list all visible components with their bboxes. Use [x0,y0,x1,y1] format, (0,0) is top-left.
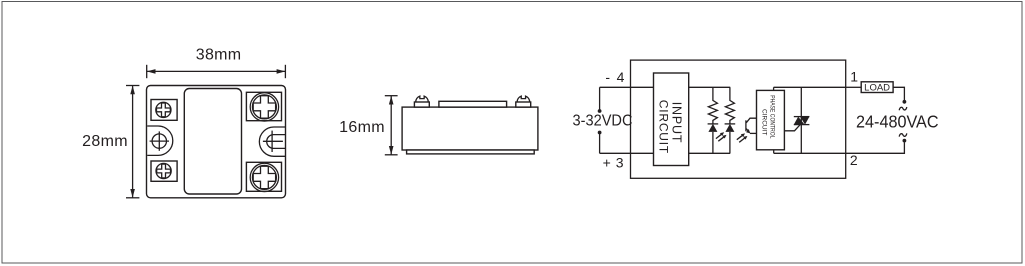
wire phase block top stub [773,87,775,90]
base plate [407,150,535,154]
label PHASE CONTROL CIRCUIT [760,95,775,139]
AC tilde bottom [899,133,907,136]
dimension line 38mm [147,65,286,78]
wire output rail bottom [774,152,846,154]
wire input bottom [600,152,654,154]
dimension line 16mm [385,96,398,155]
wire AC bottom [846,143,905,154]
svg-text:28mm: 28mm [82,133,128,150]
svg-text:CIRCUIT: CIRCUIT [760,109,767,135]
input circuit block U1 [654,73,689,166]
wire load to AC top [893,87,904,100]
node AC bottom [903,139,907,143]
wire phase block bottom stub [773,150,775,154]
screw bottom-left [156,163,171,178]
relay body side view [402,107,538,150]
LED D1 [708,124,719,153]
resistor R2 [725,87,734,124]
LED D2 [725,124,736,153]
terminal box bottom-left [151,161,177,181]
label area [184,89,241,195]
AC tilde top [899,107,907,110]
svg-text:24-480VAC: 24-480VAC [856,111,939,131]
mounting tab mid-left [147,126,173,155]
svg-text:3: 3 [616,155,624,171]
resistor R1 [708,87,717,124]
svg-text:CIRCUIT: CIRCUIT [656,100,670,154]
light arrows D2 [737,133,748,142]
svg-text:3-32VDC: 3-32VDC [573,113,633,130]
wire triac gate [784,125,800,131]
screw bottom-right [250,163,278,191]
svg-text:38mm: 38mm [196,47,242,64]
node DC- [598,131,602,135]
screw bump right [516,96,531,107]
wire input top [600,86,654,88]
label INPUT CIRCUIT [656,100,683,154]
svg-text:4: 4 [617,69,625,85]
wire rail bottom [689,152,731,154]
relay body front view [147,86,286,198]
screw bump left [414,96,429,107]
screw top-right [250,93,278,121]
node AC top [903,100,907,104]
phototransistor Q1 [746,118,757,133]
terminal box top-left [151,100,177,121]
load box [861,82,893,93]
terminal box bottom-right [246,162,281,191]
mounting tab mid-right [259,127,285,156]
dimension line 28mm [126,86,139,198]
svg-text:-: - [605,69,610,85]
mounting hole mid-left [150,131,169,150]
top ridge [439,101,507,107]
phase control block U2 [757,90,785,149]
svg-text:16mm: 16mm [339,119,385,136]
wire to load [846,86,862,88]
triac Q2 [794,87,810,153]
wire rail top [689,86,731,88]
node DC+ [598,109,602,113]
terminal box top-right [246,92,281,120]
svg-text:PHASE CONTROL: PHASE CONTROL [768,95,775,139]
svg-text:INPUT: INPUT [669,102,683,144]
svg-text:LOAD: LOAD [864,83,890,94]
svg-text:+: + [603,155,611,171]
SSR outline [631,60,846,178]
svg-text:2: 2 [850,152,858,168]
wire output rail top [774,86,846,88]
light arrows D1 [716,132,727,141]
svg-text:1: 1 [850,68,858,84]
screw top-left [156,102,171,117]
wire DC input vertical [599,87,601,111]
